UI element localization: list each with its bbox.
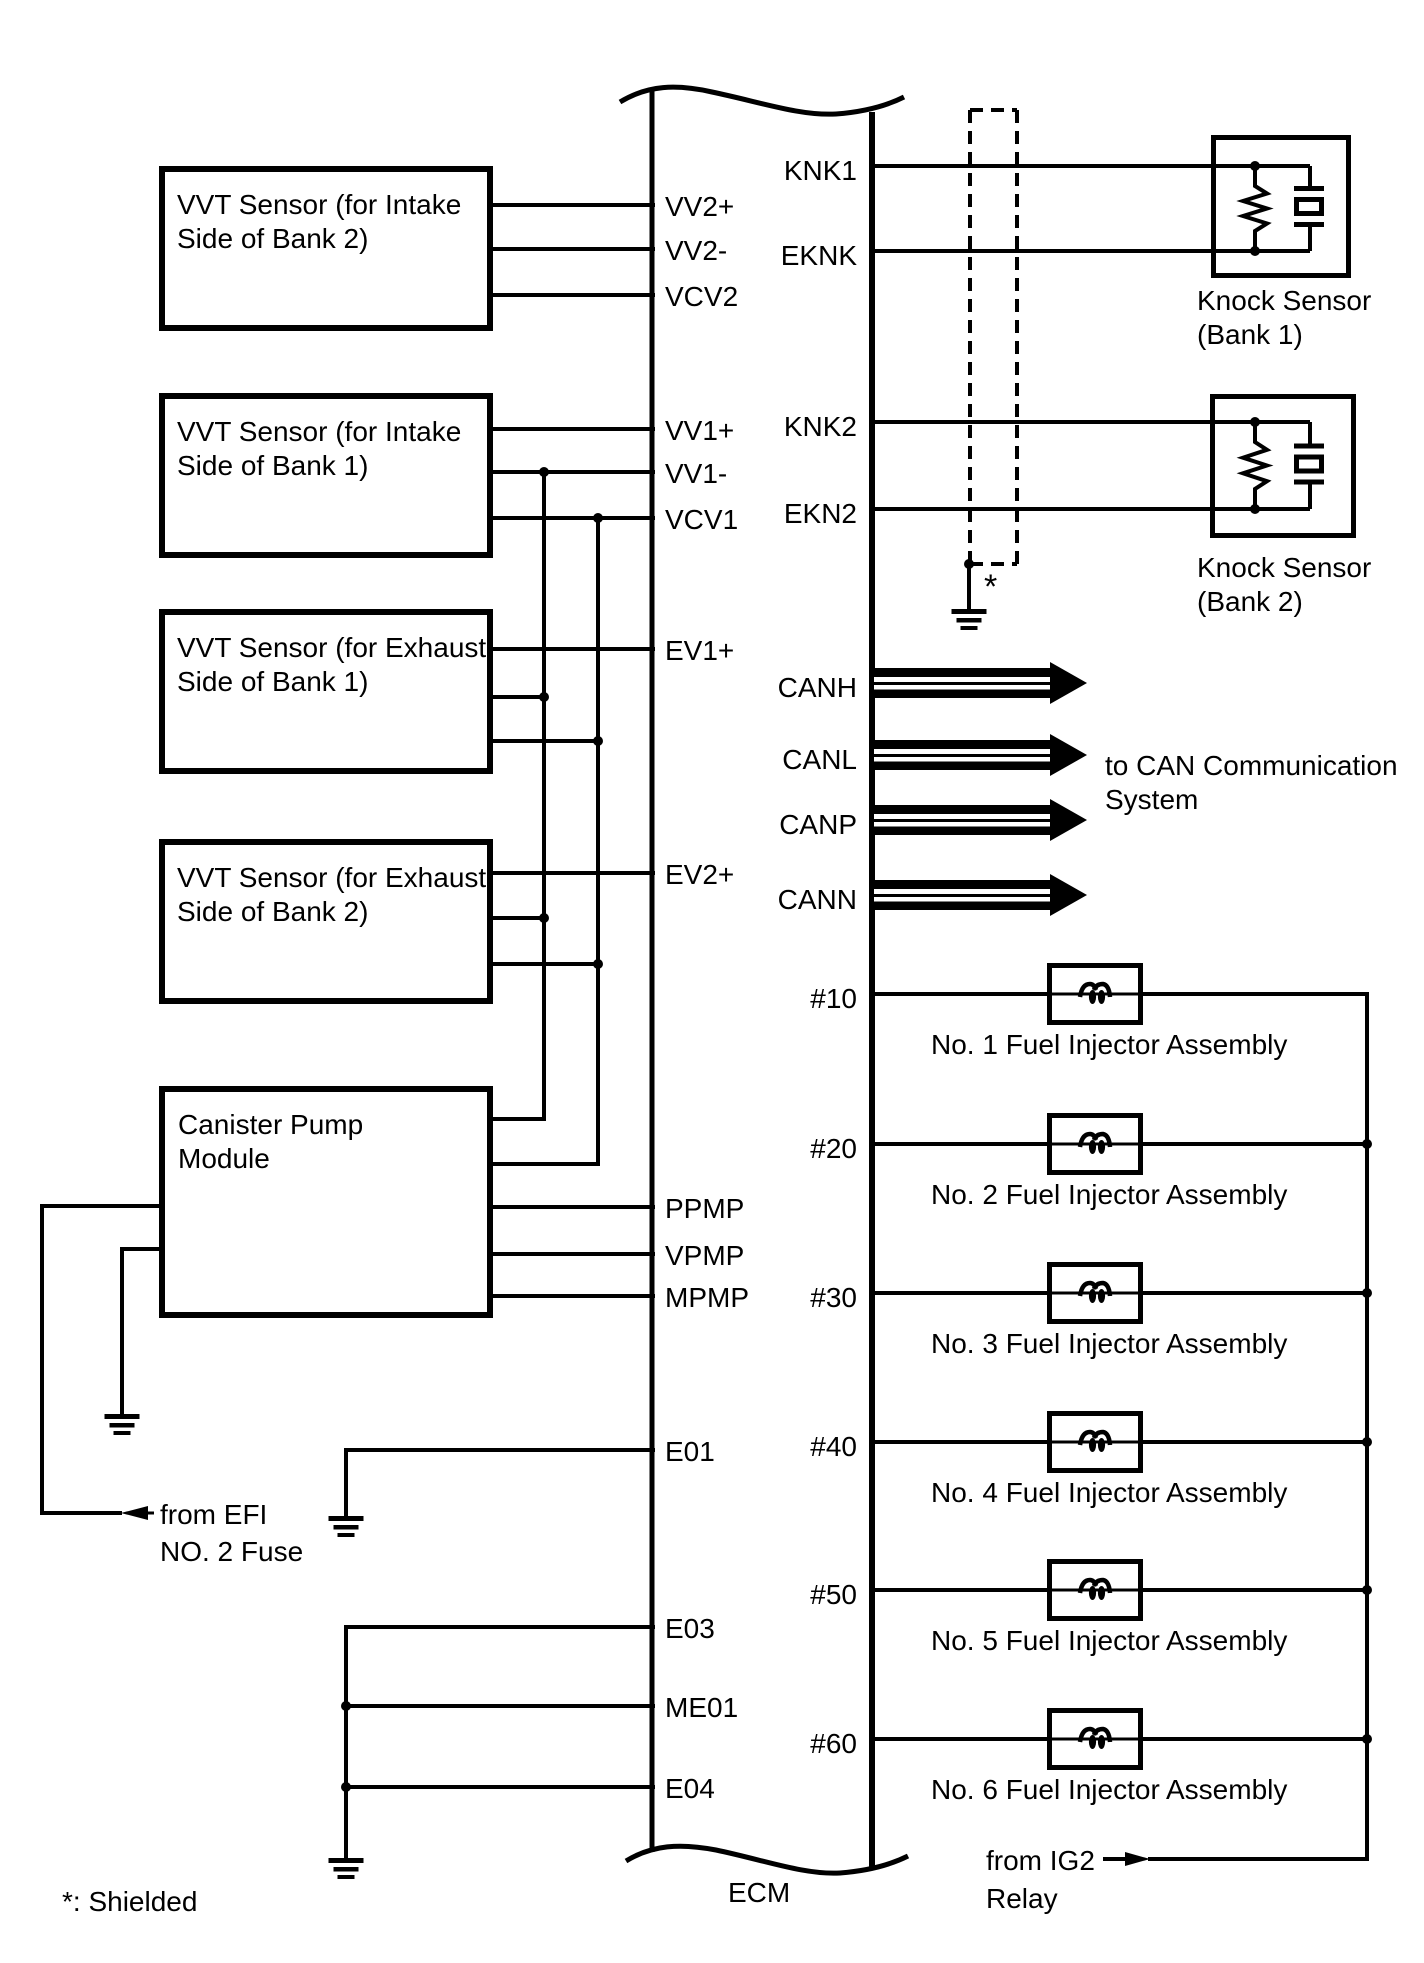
node KNK1 bottom xyxy=(1250,246,1260,256)
ground E01 xyxy=(329,1516,364,1537)
piezo element knock sensor 1 xyxy=(1294,166,1324,251)
fuel injector #20 (coil, box, wires) xyxy=(869,1116,1369,1173)
node on VCV1 wire xyxy=(593,513,603,523)
svg-text:MPMP: MPMP xyxy=(665,1282,749,1313)
svg-text:Side of Bank 1): Side of Bank 1) xyxy=(177,450,368,481)
fuel injector #40 (coil, box, wires) xyxy=(869,1414,1369,1471)
shield dashed bottom segment xyxy=(970,562,1017,566)
wire E03 xyxy=(346,1625,655,1629)
ECM bottom break (wavy line) xyxy=(626,1846,908,1873)
svg-text:EKN2: EKN2 xyxy=(784,498,857,529)
svg-text:EKNK: EKNK xyxy=(781,240,858,271)
vertical wire bus B (VCV1 net) xyxy=(596,518,600,1166)
node EV2 junction B xyxy=(593,959,603,969)
wire VV2+ xyxy=(489,203,655,207)
arrowhead from EFI NO.2 fuse xyxy=(121,1506,148,1520)
svg-text:CANL: CANL xyxy=(782,744,857,775)
wire EV2+ xyxy=(489,871,655,875)
svg-text:No. 3 Fuel Injector Assembly: No. 3 Fuel Injector Assembly xyxy=(931,1328,1287,1359)
svg-text:VCV2: VCV2 xyxy=(665,281,738,312)
wire VCV1 xyxy=(489,516,655,520)
svg-text:KNK2: KNK2 xyxy=(784,411,857,442)
node injector bus junction #40 xyxy=(1362,1437,1372,1447)
node KNK1 top xyxy=(1250,161,1260,171)
CAN bus arrow CANN xyxy=(874,874,1087,916)
wire E04 xyxy=(346,1785,655,1789)
svg-text:System: System xyxy=(1105,784,1198,815)
wire VV2- xyxy=(489,247,655,251)
arrowhead from IG2 relay xyxy=(1125,1852,1150,1866)
wire EV1 shield to bus B xyxy=(489,739,600,743)
VVT sensor box (Exhaust Bank 2) xyxy=(162,842,490,1001)
wire from IG2 relay xyxy=(1103,1857,1127,1861)
piezo element knock sensor 2 xyxy=(1294,422,1324,509)
svg-text:NO. 2 Fuse: NO. 2 Fuse xyxy=(160,1536,303,1567)
svg-text:from IG2: from IG2 xyxy=(986,1845,1095,1876)
wire E01 ground drop xyxy=(344,1448,348,1516)
svg-text:VCV1: VCV1 xyxy=(665,504,738,535)
wire EV2- to bus A xyxy=(489,916,546,920)
node ME01 junction xyxy=(341,1701,351,1711)
fuel injector #10 (coil, box, wires) xyxy=(869,966,1369,1023)
svg-text:Side of Bank 2): Side of Bank 2) xyxy=(177,223,368,254)
svg-text:VV2-: VV2- xyxy=(665,235,727,266)
svg-text:CANN: CANN xyxy=(778,884,857,915)
svg-text:to CAN Communication: to CAN Communication xyxy=(1105,750,1398,781)
svg-text:EV2+: EV2+ xyxy=(665,859,734,890)
svg-text:No. 6 Fuel Injector Assembly: No. 6 Fuel Injector Assembly xyxy=(931,1774,1287,1805)
wire EV1- to bus A xyxy=(489,695,546,699)
svg-text:Side of Bank 2): Side of Bank 2) xyxy=(177,896,368,927)
wire EV2 shield to bus B xyxy=(489,962,600,966)
svg-text:KNK1: KNK1 xyxy=(784,155,857,186)
CAN bus arrow CANP xyxy=(874,799,1087,841)
svg-text:#20: #20 xyxy=(810,1133,857,1164)
wire VV1+ xyxy=(489,427,655,431)
wire canister pump EFI drop (vertical) xyxy=(40,1204,44,1515)
wire bus B to canister pump xyxy=(489,1162,600,1166)
wire ME01 xyxy=(346,1704,655,1708)
svg-text:VV2+: VV2+ xyxy=(665,191,734,222)
node EV1 junction B xyxy=(593,736,603,746)
VVT sensor box (Exhaust Bank 1) xyxy=(162,612,490,771)
wire canister pump ground (vertical) xyxy=(120,1247,124,1414)
svg-text:ECM: ECM xyxy=(728,1877,790,1908)
svg-text:Relay: Relay xyxy=(986,1883,1058,1914)
svg-text:(Bank 1): (Bank 1) xyxy=(1197,319,1303,350)
svg-text:#40: #40 xyxy=(810,1431,857,1462)
svg-text:VPMP: VPMP xyxy=(665,1240,744,1271)
CAN bus arrow CANL xyxy=(874,734,1087,776)
ECM top break (wavy line) xyxy=(620,87,904,114)
wire shield to ground xyxy=(967,564,971,609)
svg-text:VVT Sensor (for Exhaust: VVT Sensor (for Exhaust xyxy=(177,632,486,663)
svg-text:Knock Sensor: Knock Sensor xyxy=(1197,285,1371,316)
svg-text:VVT Sensor (for Intake: VVT Sensor (for Intake xyxy=(177,416,461,447)
resistor knock sensor 2 xyxy=(1243,422,1267,509)
node injector bus junction #20 xyxy=(1362,1139,1372,1149)
node E04 junction xyxy=(341,1782,351,1792)
shield dashed right line xyxy=(1015,110,1019,564)
svg-text:#10: #10 xyxy=(810,983,857,1014)
ground canister pump xyxy=(105,1414,140,1435)
svg-text:No. 2 Fuel Injector Assembly: No. 2 Fuel Injector Assembly xyxy=(931,1179,1287,1210)
fuel injector #50 (coil, box, wires) xyxy=(869,1562,1369,1619)
wire canister pump to EFI fuse (horizontal) xyxy=(42,1204,163,1208)
VVT sensor box (Intake Bank 2) xyxy=(162,169,490,328)
svg-text:(Bank 2): (Bank 2) xyxy=(1197,586,1303,617)
node EV1- junction xyxy=(539,692,549,702)
svg-text:PPMP: PPMP xyxy=(665,1193,744,1224)
svg-text:No. 1 Fuel Injector Assembly: No. 1 Fuel Injector Assembly xyxy=(931,1029,1287,1060)
wire EKN2 xyxy=(869,507,1310,511)
svg-text:*: * xyxy=(984,568,997,606)
node injector bus junction #30 xyxy=(1362,1288,1372,1298)
fuel injector #60 (coil, box, wires) xyxy=(869,1711,1369,1768)
svg-text:Knock Sensor: Knock Sensor xyxy=(1197,552,1371,583)
ECM right boundary line xyxy=(869,112,875,1869)
svg-text:from EFI: from EFI xyxy=(160,1499,267,1530)
svg-text:No. 5 Fuel Injector Assembly: No. 5 Fuel Injector Assembly xyxy=(931,1625,1287,1656)
wire KNK2 xyxy=(869,420,1310,424)
node on VV1- wire xyxy=(539,467,549,477)
svg-text:No. 4 Fuel Injector Assembly: No. 4 Fuel Injector Assembly xyxy=(931,1477,1287,1508)
VVT sensor box (Intake Bank 1) xyxy=(162,396,490,555)
resistor knock sensor 1 xyxy=(1243,166,1267,251)
node injector bus junction #50 xyxy=(1362,1585,1372,1595)
wire MPMP xyxy=(489,1294,655,1298)
svg-text:E04: E04 xyxy=(665,1773,715,1804)
injector supply bus (vertical) xyxy=(1365,994,1369,1861)
ground E03/ME01/E04 xyxy=(329,1858,364,1879)
wire canister pump ground (horizontal) xyxy=(122,1247,163,1251)
svg-text:*: Shielded: *: Shielded xyxy=(62,1886,197,1917)
svg-text:E03: E03 xyxy=(665,1613,715,1644)
shield dashed top segment xyxy=(970,108,1017,112)
CAN bus arrow CANH xyxy=(874,662,1087,704)
svg-text:#50: #50 xyxy=(810,1579,857,1610)
svg-text:Canister Pump: Canister Pump xyxy=(178,1109,363,1140)
svg-text:E01: E01 xyxy=(665,1436,715,1467)
arrow tail from EFI fuse xyxy=(146,1512,154,1515)
node injector bus junction #60 xyxy=(1362,1734,1372,1744)
node shield ground junction xyxy=(964,559,974,569)
svg-text:Module: Module xyxy=(178,1143,270,1174)
fuel injector #30 (coil, box, wires) xyxy=(869,1265,1369,1322)
svg-text:VVT Sensor (for Exhaust: VVT Sensor (for Exhaust xyxy=(177,862,486,893)
knock sensor box (Bank 2) xyxy=(1213,397,1354,536)
node KNK2 top xyxy=(1250,417,1260,427)
vertical wire bus A (VV1- net) xyxy=(542,472,546,1121)
ECM left boundary line xyxy=(650,88,655,1852)
svg-text:#30: #30 xyxy=(810,1282,857,1313)
wire EKNK xyxy=(869,249,1310,253)
svg-text:VVT Sensor (for Intake: VVT Sensor (for Intake xyxy=(177,189,461,220)
wire VV1- xyxy=(489,470,655,474)
svg-text:#60: #60 xyxy=(810,1728,857,1759)
wire VCV2 xyxy=(489,293,655,297)
shield dashed left line xyxy=(968,110,972,564)
wire to EFI fuse arrow stub xyxy=(42,1511,122,1515)
wire PPMP xyxy=(489,1205,655,1209)
wire KNK1 xyxy=(869,164,1310,168)
svg-text:CANH: CANH xyxy=(778,672,857,703)
svg-text:ME01: ME01 xyxy=(665,1692,738,1723)
svg-text:Side of Bank 1): Side of Bank 1) xyxy=(177,666,368,697)
knock sensor box (Bank 1) xyxy=(1214,138,1349,276)
svg-text:VV1-: VV1- xyxy=(665,458,727,489)
svg-text:EV1+: EV1+ xyxy=(665,635,734,666)
wire VPMP xyxy=(489,1252,655,1256)
svg-text:VV1+: VV1+ xyxy=(665,415,734,446)
node KNK2 bottom xyxy=(1250,504,1260,514)
wire E03/ME01/E04 ground drop xyxy=(344,1625,348,1858)
wire EV1+ xyxy=(489,647,655,651)
ground shield xyxy=(952,609,987,630)
wire bus A to canister pump xyxy=(489,1117,546,1121)
svg-text:CANP: CANP xyxy=(779,809,857,840)
wire E01 xyxy=(346,1448,655,1452)
node EV2- junction xyxy=(539,913,549,923)
Canister Pump Module box xyxy=(162,1089,490,1315)
wire IG2 relay to injector bus xyxy=(1148,1857,1369,1861)
